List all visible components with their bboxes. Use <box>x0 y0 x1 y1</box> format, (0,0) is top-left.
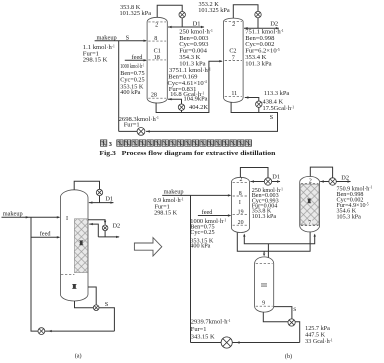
II stage label 7 <box>307 220 313 225</box>
svg-text:S: S <box>293 307 296 313</box>
wire cooler to riser (b) <box>191 342 222 344</box>
svg-text:2: 2 <box>232 22 235 28</box>
arrow D2 product out <box>276 27 279 29</box>
svg-text:(b): (b) <box>285 353 292 360</box>
arrow down into side condenser <box>104 221 106 224</box>
svg-text:D1: D1 <box>105 196 113 203</box>
wire reboiler outlet <box>295 322 300 343</box>
S valve (a) <box>93 305 99 311</box>
arrow recycle into cooler <box>146 130 149 132</box>
svg-text:11: 11 <box>231 91 237 97</box>
svg-text:2: 2 <box>309 179 312 185</box>
reboiler of C2 <box>256 101 262 107</box>
arrow D1 out (b) <box>277 180 280 182</box>
arrow D1 out (a) <box>110 201 113 203</box>
svg-text:404.2K: 404.2K <box>189 104 208 111</box>
svg-text:feed: feed <box>132 54 144 61</box>
svg-text:400 kPa: 400 kPa <box>190 243 210 250</box>
arrow D1 product out <box>201 26 204 28</box>
column III vessel (b) <box>255 257 274 312</box>
column III top dashed line <box>256 262 273 264</box>
svg-text:17.5Gcal·h-1: 17.5Gcal·h-1 <box>263 105 295 112</box>
wire recycle line (b) <box>233 342 300 344</box>
C2 top dashed tray line <box>225 21 242 23</box>
wire (a) overhead line <box>74 181 99 190</box>
svg-text:105.3 kPa: 105.3 kPa <box>337 214 362 220</box>
svg-text:33 Gcal·h-1: 33 Gcal·h-1 <box>305 338 333 345</box>
wire recycle line (a) <box>45 330 115 332</box>
column III tray 9 dashed line <box>256 305 273 307</box>
svg-text:113.3 kPa: 113.3 kPa <box>264 90 289 97</box>
svg-text:D1: D1 <box>272 173 280 180</box>
arrow makeup into column I <box>228 194 231 196</box>
wire C1 reboiler return <box>168 99 182 104</box>
svg-text:C2: C2 <box>229 49 236 55</box>
bold section label II (b) <box>307 199 311 204</box>
bold section label II in hatch <box>79 240 83 245</box>
wire reflux / D1 line <box>168 26 204 28</box>
wire recycle riser (a) <box>31 217 38 331</box>
arrow recycle into cooler (b) <box>236 341 239 343</box>
column I vessel (b) <box>232 177 250 232</box>
packing hatch column II <box>300 184 319 225</box>
arrow feed into column (a) <box>57 236 60 238</box>
C1 tray 8 dashed line <box>148 40 166 42</box>
wire below side condenser <box>104 231 106 237</box>
svg-text:298.15 K: 298.15 K <box>154 210 178 217</box>
wire liquid into column III <box>263 251 265 253</box>
condenser of C1 <box>179 12 185 18</box>
C2 tray 7 dashed line <box>225 60 242 62</box>
condenser of column II (b) <box>329 178 336 185</box>
arrow reflux into C1 <box>168 26 171 28</box>
svg-text:8: 8 <box>239 191 242 197</box>
arrow reflux into II <box>320 180 323 182</box>
wire section II draw to S valve <box>88 287 96 305</box>
column II bottom dashed line <box>301 225 319 227</box>
wire (a) condenser drop <box>99 196 101 203</box>
svg-text:Fur=1: Fur=1 <box>191 326 207 333</box>
column I tray 8 dashed line <box>233 195 249 197</box>
wire reboiler to bottoms line <box>181 110 183 112</box>
svg-text:9: 9 <box>262 301 265 307</box>
svg-text:D2: D2 <box>341 175 349 182</box>
arrow feed into column I (b) <box>228 214 231 216</box>
svg-text:Cyc=0.25: Cyc=0.25 <box>190 229 214 236</box>
dashed line below hatch <box>61 273 74 275</box>
svg-text:101.3 kPa: 101.3 kPa <box>245 60 271 67</box>
wire II reflux / D2 line (b) <box>320 181 350 183</box>
svg-text:I: I <box>239 200 241 206</box>
wire (a) reflux / D1 line <box>89 202 114 204</box>
svg-text:298.15 K: 298.15 K <box>83 56 108 63</box>
column I top dashed line <box>233 181 249 183</box>
svg-text:8: 8 <box>154 36 157 42</box>
svg-text:Fur=1: Fur=1 <box>124 122 140 129</box>
column (a) vessel <box>60 190 88 301</box>
svg-text:D1: D1 <box>193 20 201 27</box>
column C2 vessel <box>224 18 244 102</box>
svg-text:S: S <box>126 34 130 41</box>
arrow reflux into C2 <box>244 27 247 29</box>
arrow liquid into III <box>263 253 265 256</box>
svg-text:2: 2 <box>155 22 158 28</box>
wire liquid manifold <box>237 232 310 251</box>
wire column I overhead <box>240 168 268 178</box>
wire (a) bottoms outlet <box>75 301 94 308</box>
wire III stage-9 draw to reboiler <box>274 307 292 319</box>
wire feed line <box>125 59 146 61</box>
svg-text:S: S <box>270 114 274 121</box>
svg-text:2: 2 <box>240 177 243 183</box>
svg-text:III: III <box>261 283 267 289</box>
svg-text:C1: C1 <box>154 48 161 54</box>
C1 tray 18 dashed line <box>148 59 166 61</box>
arrow reboiler return into C2 <box>245 96 248 98</box>
wire vapor from column III <box>267 244 269 262</box>
wire (a) side vapor draw <box>88 220 105 225</box>
svg-text:makeup: makeup <box>97 34 117 41</box>
wire C2 condenser drop <box>257 18 259 28</box>
svg-text:makeup: makeup <box>164 189 184 196</box>
arrow vapor into column II <box>314 234 316 237</box>
wire C1 overhead vapor line <box>157 5 182 17</box>
svg-text:D2: D2 <box>270 20 278 27</box>
column I tray 19 dashed line <box>233 214 249 216</box>
svg-text:18: 18 <box>154 55 160 61</box>
arrow makeup into column (a) <box>57 216 60 218</box>
svg-text:feed: feed <box>202 209 214 216</box>
wire feed line (b) <box>198 215 231 217</box>
wire recycle riser (b) <box>190 195 192 342</box>
wire vapor manifold <box>244 235 314 244</box>
svg-text:343.15 K: 343.15 K <box>191 333 215 340</box>
wire C2 reflux / D2 line <box>244 27 279 29</box>
svg-text:S: S <box>105 301 109 308</box>
reboiler of column III <box>288 319 295 326</box>
wire C1 bottoms to C2 feed <box>156 61 222 112</box>
arrow feed into C1 stage 18 <box>144 59 147 61</box>
wire cooler to riser <box>119 130 137 132</box>
packing hatch section II <box>74 219 87 273</box>
column II vessel (b) <box>300 176 320 232</box>
wire C2 overhead vapor line <box>233 5 258 19</box>
svg-text:20: 20 <box>238 220 244 226</box>
arrow D2 out (a) <box>116 236 119 238</box>
svg-text:400 kPa: 400 kPa <box>120 89 140 96</box>
wire column II overhead <box>310 167 332 178</box>
column I tray 20 dashed line <box>233 224 249 226</box>
reboiler of C1 <box>178 104 184 110</box>
svg-text:104.9kPa: 104.9kPa <box>184 95 208 102</box>
wire makeup+S feed line <box>95 40 146 42</box>
arrow on makeup line <box>26 216 29 218</box>
wire feed line (a) <box>31 236 59 238</box>
C1 tray 28 dashed line <box>148 97 166 99</box>
condenser of C2 <box>255 11 261 17</box>
wire D2 product line (a) <box>98 236 119 238</box>
svg-text:2939.7kmol·h-1: 2939.7kmol·h-1 <box>191 319 231 326</box>
svg-text:19: 19 <box>238 209 244 215</box>
svg-text:101.3 kPa: 101.3 kPa <box>252 214 277 220</box>
wire solvent recycle riser <box>118 41 120 132</box>
svg-text:makeup: makeup <box>3 211 23 218</box>
C1 top dashed tray line <box>148 21 166 23</box>
wire makeup line (a) <box>2 216 60 218</box>
wire C2 reboiler to bottoms <box>258 107 260 112</box>
solvent cooler (b) <box>221 337 232 348</box>
column C1 vessel <box>147 17 167 103</box>
condenser of column I (b) <box>264 178 271 185</box>
arrow reflux into I <box>251 180 254 182</box>
svg-text:1000 kmol·h-1: 1000 kmol·h-1 <box>120 63 144 70</box>
solvent cooler (top figure) <box>137 127 145 135</box>
block arrow between (a) and (b) <box>134 238 161 256</box>
solvent cooler (a) <box>38 328 45 335</box>
wire side reflux return (a) <box>89 224 98 237</box>
wire makeup line (b) <box>162 194 230 196</box>
svg-text:7: 7 <box>232 56 235 62</box>
C2 tray 11 dashed line <box>225 96 242 98</box>
wire III bottoms to reboiler <box>263 312 288 322</box>
arrow into C1 stage 8 <box>144 40 147 42</box>
svg-text:(a): (a) <box>75 353 82 360</box>
arrow reflux into column (a) <box>89 201 92 203</box>
wire C2 bottoms solvent recycle <box>146 102 278 131</box>
column II top dashed line <box>301 182 319 184</box>
arrow recycle into cooler (a) <box>48 330 51 332</box>
svg-text:101.325 kPa: 101.325 kPa <box>198 7 230 14</box>
arrow into C2 stage 7 <box>219 60 222 62</box>
wire S to recycle <box>99 308 114 331</box>
wire condenser outlet drop <box>181 18 183 27</box>
svg-text:I: I <box>66 215 68 222</box>
arrow D2 out (b) <box>348 180 351 182</box>
wire C2 reboiler return <box>245 98 259 102</box>
wire I reflux / D1 line (b) <box>250 181 280 183</box>
svg-text:feed: feed <box>40 231 52 238</box>
svg-text:D2: D2 <box>113 222 121 229</box>
arrow side reflux into column <box>89 223 92 225</box>
arrow reboiler return into C1 <box>168 98 171 100</box>
svg-text:101.325 kPa: 101.325 kPa <box>120 10 152 17</box>
chinese caption (simulated glyphs) <box>101 140 252 148</box>
bold section label II lower <box>72 284 76 289</box>
svg-text:Fig.3 Process flow diagram f: Fig.3 Process flow diagram for extractiv… <box>99 150 275 157</box>
svg-text:28: 28 <box>151 93 157 99</box>
condenser of column (a) <box>96 189 102 195</box>
side condenser (a) <box>102 225 108 231</box>
arrow vapor into column I <box>243 234 245 237</box>
